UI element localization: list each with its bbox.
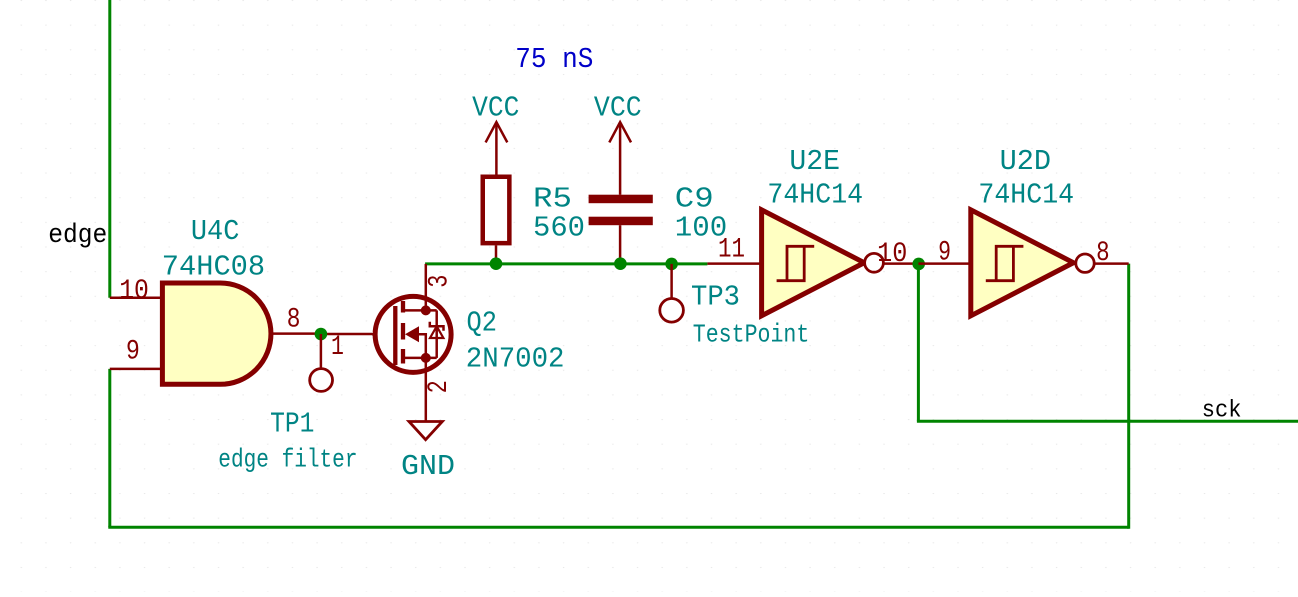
Q2 channel dash middle	[401, 323, 405, 340]
Q2 drain pin 3	[425, 264, 428, 311]
junction R5/bus	[490, 257, 503, 270]
Q2 gate bar	[393, 306, 397, 365]
Q2 bulk connection	[419, 334, 426, 358]
capacitor C9 top plate	[589, 195, 653, 204]
Q2 drain horizontal	[403, 309, 437, 312]
wire sck horizontal	[917, 420, 1298, 423]
junction C9/bus	[614, 257, 627, 270]
inverter U2D triangle	[971, 210, 1074, 316]
and-gate U4C pin 10 stub	[110, 297, 162, 300]
U2D pin 8 stub	[1094, 262, 1129, 265]
capacitor C9 bottom plate	[589, 217, 653, 226]
transistor Q2 gate pin wire	[372, 333, 395, 336]
svg-text:sck: sck	[1202, 397, 1242, 424]
svg-text:GND: GND	[401, 450, 455, 483]
testpoint TP3 stub	[670, 264, 673, 299]
Q2 body diode vertical	[435, 310, 438, 358]
inverter U2D pin 9 stub	[918, 262, 971, 265]
svg-text:8: 8	[287, 305, 301, 336]
Q2 channel dash top	[401, 301, 405, 313]
svg-text:TP1: TP1	[270, 408, 314, 441]
testpoint TP3 circle	[660, 299, 684, 323]
Q2 internal junction top	[421, 305, 431, 315]
ground symbol GND	[409, 422, 442, 440]
and-gate U4C body	[162, 283, 271, 384]
junction U2E output / sck	[912, 258, 925, 271]
svg-text:1: 1	[331, 332, 344, 363]
svg-text:U2D: U2D	[1000, 145, 1052, 178]
testpoint TP1 stub	[320, 334, 323, 369]
wire feedback right vertical	[1127, 264, 1130, 529]
wire feedback bottom horizontal	[108, 526, 1128, 529]
power symbol VCC (C9)	[609, 122, 631, 195]
svg-text:2: 2	[424, 380, 455, 393]
svg-text:560: 560	[533, 211, 585, 244]
svg-text:10: 10	[119, 276, 149, 307]
svg-text:VCC: VCC	[472, 91, 519, 124]
svg-text:9: 9	[938, 238, 951, 269]
capacitor C9 bottom pin	[619, 225, 622, 264]
U2D output bubble	[1076, 254, 1094, 272]
power symbol VCC (R5)	[486, 122, 508, 174]
testpoint TP1 circle	[310, 369, 333, 392]
svg-text:U2E: U2E	[789, 145, 840, 178]
U2E hysteresis glyph	[777, 246, 815, 280]
wire edge net vertical	[108, 0, 111, 298]
svg-text:3: 3	[425, 275, 456, 288]
svg-text:8: 8	[1096, 238, 1110, 269]
wire main bus horizontal	[425, 262, 707, 265]
svg-text:edge: edge	[48, 221, 107, 251]
and-gate U4C pin 9 stub	[110, 368, 162, 371]
svg-text:10: 10	[877, 239, 907, 270]
svg-text:74HC14: 74HC14	[978, 179, 1074, 212]
U2E pin 10 stub	[883, 262, 918, 265]
wire feedback left vertical	[108, 369, 111, 527]
transistor Q2 body circle	[375, 296, 451, 372]
U2D hysteresis glyph	[986, 246, 1024, 280]
svg-text:edge filter: edge filter	[218, 444, 357, 474]
svg-text:Q2: Q2	[467, 307, 497, 340]
svg-text:2N7002: 2N7002	[466, 343, 565, 376]
Q2 source pin 2	[425, 358, 428, 422]
svg-text:9: 9	[126, 337, 140, 368]
Q2 body diode cathode bar	[430, 322, 444, 331]
svg-text:TestPoint: TestPoint	[693, 320, 810, 350]
resistor R5 bottom pin	[495, 245, 498, 264]
svg-text:74HC08: 74HC08	[162, 251, 265, 284]
Q2 body diode anode triangle	[430, 326, 443, 338]
svg-text:11: 11	[718, 235, 745, 266]
svg-text:U4C: U4C	[191, 215, 240, 248]
Q2 source arrow	[405, 326, 419, 342]
Q2 source horizontal	[403, 357, 437, 360]
inverter U2E pin 11 stub	[707, 262, 762, 265]
svg-text:TP3: TP3	[691, 281, 740, 314]
wire sck vertical from U2E output junction	[917, 264, 920, 421]
svg-text:VCC: VCC	[594, 91, 642, 124]
Q2 channel dash bottom	[401, 349, 405, 364]
wire and-output to mosfet gate	[321, 333, 372, 336]
resistor R5 body	[483, 177, 510, 243]
inverter U2E triangle	[762, 210, 865, 316]
svg-text:74HC14: 74HC14	[767, 179, 863, 212]
U2E output bubble	[865, 253, 884, 272]
Q2 internal junction bottom	[421, 353, 431, 363]
junction at pin8 / TP1	[315, 328, 328, 341]
junction TP3/bus	[665, 258, 678, 271]
and-gate U4C pin 8 output stub	[271, 332, 321, 335]
svg-text:75 nS: 75 nS	[515, 43, 593, 76]
